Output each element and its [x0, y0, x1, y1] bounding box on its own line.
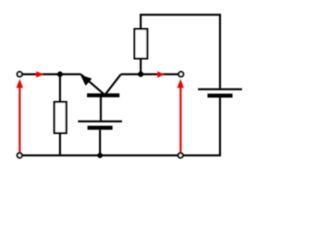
voltage arrow right (red, up) [180, 87, 182, 152]
wire: middle-right rail from collector corner to output terminal [121, 73, 181, 75]
wire: battery B2 bottom lead to bottom rail [99, 130, 101, 156]
current arrow output (red, right) [157, 71, 164, 78]
battery B1 negative plate [208, 94, 233, 98]
transistor Q1 emitter arrowhead [81, 76, 91, 85]
wire: R1 bottom lead [59, 133, 61, 155]
wire: middle-left rail from input terminal to emitter [20, 73, 81, 75]
wire: battery B1 bottom lead to bottom rail [219, 98, 221, 156]
terminal: input top [17, 72, 22, 77]
battery B2 negative plate [88, 126, 113, 130]
resistor R1 [54, 102, 66, 133]
transistor Q1 emitter diagonal [81, 74, 104, 94]
battery B1 positive plate [198, 88, 242, 90]
transistor Q1 base bar [87, 93, 120, 97]
current arrow input (red, right) [36, 71, 43, 77]
wire: R1 top lead [59, 74, 61, 102]
terminal: output top [179, 72, 184, 77]
battery B2 positive plate [78, 120, 122, 122]
resistor R2 [135, 29, 148, 59]
junction dot at R2 bottom [138, 71, 144, 77]
wire: bottom rail [20, 154, 221, 156]
junction dot at B2 bottom [97, 153, 102, 158]
transistor Q1 collector diagonal [105, 74, 121, 94]
wire: R2 top lead, top rail and right-side drop to battery [141, 15, 220, 89]
wire: base lead down to battery B2 [100, 97, 102, 120]
terminal: input bottom [17, 153, 22, 158]
voltage arrow left (red, up) [19, 87, 21, 152]
terminal: output bottom [178, 153, 183, 158]
junction dot at R1 top [57, 71, 63, 77]
wire: R2 bottom lead [140, 59, 142, 75]
